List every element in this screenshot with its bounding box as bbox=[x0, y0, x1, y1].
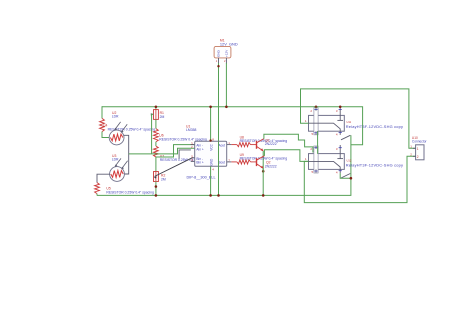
transistor Q2 2N2222 bbox=[257, 156, 277, 169]
wire Q2 collector to relay U12 coil bbox=[264, 150, 308, 162]
svg-text:RelayHT3F-12VDC-SHG copy: RelayHT3F-12VDC-SHG copy bbox=[346, 124, 403, 129]
svg-text:1: 1 bbox=[305, 119, 307, 123]
svg-text:Ain +: Ain + bbox=[196, 147, 203, 151]
wire divider tap to pin 2 and LDR tap bbox=[129, 114, 195, 154]
wire R2 wiper to op-amp pin 5 bbox=[154, 158, 195, 179]
+12V rail bbox=[102, 107, 363, 145]
junction relay contact pin on rail bbox=[339, 106, 342, 109]
wire relay U12 NO to ground column bbox=[340, 173, 352, 179]
svg-text:4: 4 bbox=[336, 171, 338, 175]
wire LDR U3 left to U5 bbox=[97, 174, 110, 182]
svg-text:5: 5 bbox=[312, 170, 314, 174]
svg-text:Connector: Connector bbox=[412, 140, 428, 144]
svg-text:3: 3 bbox=[336, 109, 338, 113]
svg-text:2M: 2M bbox=[161, 178, 166, 182]
resistor U7 bbox=[154, 146, 208, 162]
relay U12 labels bbox=[346, 159, 403, 168]
svg-text:GND: GND bbox=[217, 49, 221, 57]
svg-text:4: 4 bbox=[212, 168, 214, 172]
relay U12 moving contact bbox=[341, 174, 350, 179]
potentiometer R1 bbox=[151, 107, 165, 120]
svg-text:DIP-8__300_ELL: DIP-8__300_ELL bbox=[187, 175, 216, 179]
wire Q2 emitter to ground rail bbox=[262, 168, 265, 197]
resistor U9 bbox=[231, 153, 287, 164]
resistor U8 bbox=[231, 135, 287, 146]
connector M1 bbox=[214, 39, 238, 64]
wire U4 to LDR U2 bbox=[102, 132, 109, 138]
wire dark stub pin 6 bbox=[179, 150, 195, 162]
relay U12 bbox=[305, 145, 344, 175]
wire U6/U7 junction to pin 3 bbox=[156, 145, 195, 157]
wire M1 +12V down bbox=[225, 63, 228, 108]
svg-text:RelayHT3F-12VDC-SHG copy: RelayHT3F-12VDC-SHG copy bbox=[346, 163, 403, 168]
resistor U6 bbox=[154, 129, 207, 142]
resistor U5 bbox=[95, 183, 154, 196]
wire relay U12 COM to connector pin 2 bbox=[304, 156, 415, 202]
relay U11 bbox=[305, 107, 344, 137]
svg-text:2N2222: 2N2222 bbox=[265, 142, 277, 146]
relay U11 labels bbox=[346, 120, 403, 129]
wire R2 to ground rail bbox=[155, 182, 158, 197]
svg-text:LDR: LDR bbox=[112, 115, 119, 119]
svg-text:RESISTOR 0.25W 0.4" spacing: RESISTOR 0.25W 0.4" spacing bbox=[106, 190, 154, 194]
svg-text:Bout: Bout bbox=[218, 161, 225, 165]
ground rail bbox=[97, 135, 351, 195]
wire M1 GND through IC to ground rail bbox=[217, 142, 220, 197]
resistor U4 bbox=[100, 118, 156, 131]
relay U11 moving contact bbox=[341, 135, 350, 140]
svg-text:4: 4 bbox=[336, 133, 338, 137]
svg-text:RESISTOR 0.25W 0.4" spacing: RESISTOR 0.25W 0.4" spacing bbox=[240, 157, 288, 161]
svg-text:1: 1 bbox=[417, 147, 419, 151]
svg-text:2M: 2M bbox=[160, 115, 165, 119]
svg-text:2: 2 bbox=[224, 59, 226, 63]
svg-text:3: 3 bbox=[336, 147, 338, 151]
wire LDR U2 right to LDR U3 right bbox=[124, 135, 129, 174]
svg-text:1: 1 bbox=[216, 59, 218, 63]
svg-text:2: 2 bbox=[310, 109, 312, 113]
svg-text:1: 1 bbox=[305, 157, 307, 161]
photoresistor U2 bbox=[109, 111, 127, 145]
svg-text:VCC: VCC bbox=[209, 143, 213, 150]
wire relay U11 COM to connector pin 1 bbox=[301, 89, 416, 148]
svg-text:2N2222: 2N2222 bbox=[265, 164, 277, 168]
svg-text:Bin +: Bin + bbox=[196, 161, 203, 165]
svg-text:GND: GND bbox=[209, 158, 213, 166]
wire VCC to rail bbox=[209, 106, 212, 142]
wire relay U11 coil top to rail bbox=[315, 107, 317, 108]
wire M1 GND down bbox=[217, 63, 219, 142]
potentiometer R2 bbox=[154, 172, 166, 182]
connector U10 bbox=[410, 136, 427, 160]
op-amp U1 LM358 bbox=[186, 125, 231, 180]
svg-text:Aout: Aout bbox=[218, 144, 225, 148]
wire Q1 emitter down bbox=[262, 151, 265, 173]
svg-text:5: 5 bbox=[312, 132, 314, 136]
svg-text:RESISTOR 0.25W 0.4" spacing: RESISTOR 0.25W 0.4" spacing bbox=[159, 137, 207, 141]
junction relay coil pin on rail bbox=[315, 106, 318, 109]
wire R1 to U6 bbox=[155, 106, 158, 129]
wire Q1 collector to relay U11 coil bbox=[264, 134, 316, 155]
svg-text:LDR: LDR bbox=[112, 158, 119, 162]
svg-text:LM358: LM358 bbox=[186, 128, 196, 132]
svg-text:2: 2 bbox=[417, 155, 419, 159]
photoresistor U3 bbox=[110, 154, 128, 182]
wire U7 to R2 bbox=[155, 157, 157, 172]
svg-text:2: 2 bbox=[310, 147, 312, 151]
svg-text:8: 8 bbox=[212, 137, 214, 141]
wire relay coils link bbox=[317, 131, 319, 154]
svg-text:12V_GND: 12V_GND bbox=[220, 42, 238, 47]
wire rail to U4 bbox=[101, 106, 103, 118]
svg-text:+12V: +12V bbox=[225, 49, 229, 57]
wire IC GND to ground rail bbox=[209, 166, 212, 196]
wire U6 to U7 bbox=[155, 142, 157, 146]
transistor Q1 2N2222 bbox=[257, 139, 277, 152]
svg-text:RESISTOR 0.25W 0.4" spacing: RESISTOR 0.25W 0.4" spacing bbox=[240, 139, 288, 143]
